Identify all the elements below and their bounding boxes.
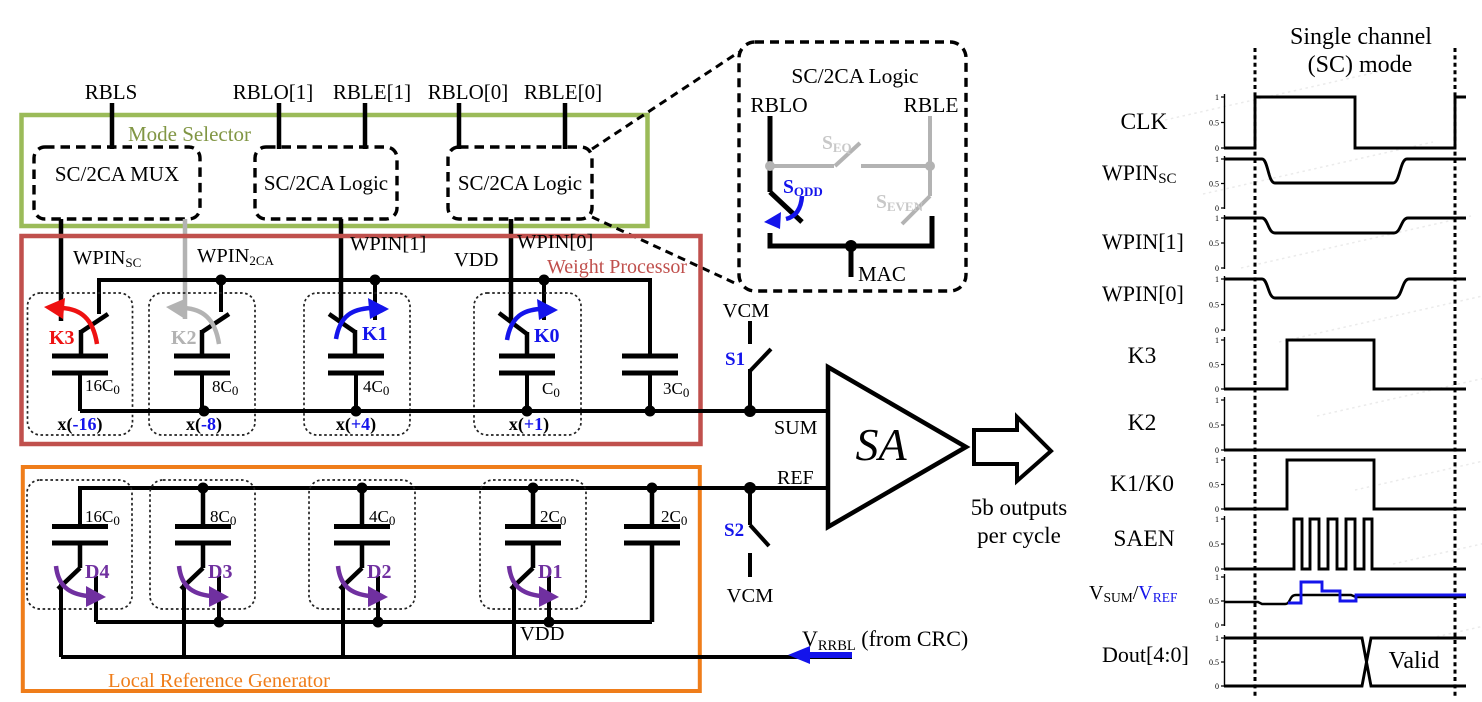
svg-text:0: 0 (1215, 264, 1219, 273)
capacitor 3C0 (weight, fixed) (622, 356, 689, 411)
block U2 SC/2CA Logic (255, 147, 397, 219)
svg-text:D4: D4 (85, 561, 109, 583)
wire K0 VDD stub (542, 280, 546, 320)
svg-text:RBLE[0]: RBLE[0] (524, 80, 602, 104)
switch D2 (340, 568, 378, 657)
svg-text:S1: S1 (725, 349, 745, 370)
wire VRRBL bottom bus (61, 655, 852, 659)
svg-text:K1/K0: K1/K0 (1110, 471, 1174, 497)
label x(-16) (58, 414, 103, 435)
switch D4 purple arrow (56, 566, 106, 607)
waveform SAEN (1224, 519, 1466, 569)
cycle boundary dashed line left (1254, 48, 1257, 697)
junction dot rail-K1 (370, 275, 381, 286)
frame: Local Reference Generator (orange) (23, 467, 700, 691)
label S2 (724, 520, 744, 541)
net label VCM (top) (723, 300, 770, 322)
frame: Weight Processor (dark red) (22, 236, 701, 444)
svg-text:1: 1 (1215, 634, 1219, 643)
switch S_EQ gray blade (835, 143, 860, 166)
svg-text:x(+4): x(+4) (336, 414, 376, 435)
junction dot MAC (845, 240, 857, 252)
axis WPIN1 (1209, 214, 1225, 273)
node RBLO[1] label (233, 80, 314, 104)
label K1 (362, 323, 388, 345)
svg-text:RBLO: RBLO (750, 93, 807, 117)
label WPIN_SC (1102, 160, 1177, 187)
wire VDD top rail (99, 280, 650, 356)
waveform VREF blue (1288, 582, 1466, 603)
svg-text:VRRBL (from CRC): VRRBL (from CRC) (802, 626, 968, 654)
svg-text:0.5: 0.5 (1209, 540, 1219, 549)
junction dots SUM rail (199, 406, 656, 417)
axis CLK (1209, 93, 1225, 153)
svg-text:WPIN2CA: WPIN2CA (197, 245, 275, 268)
svg-text:VDD: VDD (454, 249, 498, 271)
svg-text:0: 0 (1215, 326, 1219, 335)
timing title Single channel (SC) mode (1290, 24, 1432, 78)
wire RBLE[1] (363, 103, 368, 149)
svg-text:MAC: MAC (858, 262, 906, 286)
net label VCM (bottom) (727, 585, 774, 607)
net label WPIN_SC (73, 247, 141, 270)
node RBLS label (85, 80, 138, 104)
svg-text:1: 1 (1215, 515, 1219, 524)
capacitor 16C0 (reference) (52, 507, 120, 568)
svg-text:4C0: 4C0 (369, 507, 395, 528)
svg-text:x(+1): x(+1) (509, 414, 549, 435)
net label SUM (774, 417, 818, 439)
capacitor 2C0 (reference, fixed) (624, 488, 687, 622)
svg-text:REF: REF (777, 467, 814, 489)
svg-text:0.5: 0.5 (1209, 180, 1219, 189)
wire RBLE gray (inset) (928, 116, 932, 196)
wire RBLE[0] (563, 103, 568, 149)
capacitor 4C0 (weight) (328, 356, 389, 411)
svg-text:16C0: 16C0 (85, 507, 120, 528)
switch K2 gray arrow (166, 298, 219, 344)
svg-text:WPIN[1]: WPIN[1] (350, 233, 426, 255)
junction dot rail-K2 (216, 275, 227, 286)
wire WPIN[0] (U3 to K0) (509, 219, 514, 320)
label VRRBL (from CRC) (802, 626, 968, 654)
capacitor 2C0 (reference) (505, 488, 566, 568)
label K1/K0 (1110, 471, 1174, 497)
svg-text:Single channel: Single channel (1290, 24, 1432, 50)
junction dots REF rail (198, 483, 658, 494)
svg-text:1: 1 (1215, 456, 1219, 465)
output arrow (5b outputs) (974, 417, 1051, 481)
waveform K2 (1224, 449, 1466, 452)
label Valid (1389, 648, 1440, 674)
waveform K1/K0 (1224, 460, 1466, 509)
label x(+1) (509, 414, 549, 435)
svg-text:D1: D1 (538, 561, 562, 583)
node RBLO (inset) (750, 93, 807, 117)
label K3 (1128, 343, 1157, 369)
svg-text:WPIN[1]: WPIN[1] (1102, 229, 1184, 254)
svg-text:D2: D2 (367, 561, 391, 583)
waveform WPIN_SC (1224, 159, 1466, 183)
label WPIN[1] (1102, 229, 1184, 254)
switch K2 (gray) (202, 314, 229, 356)
switch K1 blue arrow (336, 298, 389, 339)
svg-text:K2: K2 (1128, 410, 1157, 436)
switch D2 purple arrow (338, 566, 388, 607)
wire equalizer gray right (861, 164, 930, 168)
junction dot SUM node (744, 405, 756, 417)
svg-text:0: 0 (1215, 682, 1219, 691)
node RBLE[0] label (524, 80, 602, 104)
svg-text:1: 1 (1215, 155, 1219, 164)
wire WPIN_2CA gray (MUX to K2) (183, 219, 188, 319)
axis K1K0 (1209, 456, 1225, 514)
switch S_ODD blue arrow (764, 196, 802, 229)
label x(-8) (186, 414, 222, 435)
svg-text:4C0: 4C0 (363, 377, 389, 398)
callout line upper (U3 to inset) (592, 52, 739, 149)
junction dot gray left (765, 161, 775, 171)
capacitor 8C0 (weight) (174, 356, 238, 411)
waveform CLK (1224, 97, 1466, 148)
label Local Reference Generator (108, 670, 330, 692)
svg-text:K3: K3 (1128, 343, 1157, 369)
cell box x(+4) (304, 293, 410, 435)
svg-text:SUM: SUM (774, 417, 818, 439)
svg-text:Dout[4:0]: Dout[4:0] (1102, 642, 1189, 667)
svg-text:x(-16): x(-16) (58, 414, 103, 435)
label D1 (538, 561, 562, 583)
svg-text:Weight Processor: Weight Processor (547, 256, 687, 278)
label K2 (1128, 410, 1157, 436)
svg-text:16C0: 16C0 (85, 376, 120, 397)
junction dots VDD bus (214, 617, 555, 628)
svg-text:0.5: 0.5 (1209, 658, 1219, 667)
svg-text:VSUM/VREF: VSUM/VREF (1089, 582, 1178, 605)
svg-text:1: 1 (1215, 214, 1219, 223)
switch K1 (329, 314, 355, 356)
switch K3 red arrow (44, 298, 97, 344)
wire equalizer gray left (770, 164, 834, 168)
capacitor 4C0 (reference) (334, 488, 395, 568)
svg-text:0.5: 0.5 (1209, 421, 1219, 430)
axis VSUM (1209, 573, 1225, 630)
svg-text:D3: D3 (208, 561, 232, 583)
wire RBLO[1] (277, 103, 282, 149)
waveform WPIN[1] (1224, 218, 1466, 233)
svg-text:K3: K3 (49, 327, 75, 349)
waveform K3 (1224, 340, 1466, 389)
wire WPIN_SC (MUX to K3) (59, 219, 64, 321)
svg-text:1: 1 (1215, 573, 1219, 582)
cell box D2 (309, 480, 415, 609)
svg-text:Mode Selector: Mode Selector (128, 122, 251, 146)
svg-text:C0: C0 (542, 379, 560, 400)
svg-text:0.5: 0.5 (1209, 597, 1219, 606)
wire VRRBL blue arrow (788, 646, 852, 664)
cell box x(-8) (149, 293, 255, 435)
axis SAEN (1209, 515, 1225, 574)
wire WPIN[1] (U2 to K1) (339, 219, 344, 321)
svg-text:RBLE: RBLE (904, 93, 959, 117)
label K2 (171, 327, 197, 349)
switch D3 purple arrow (179, 566, 229, 607)
label 5b outputs per cycle (971, 495, 1068, 548)
net label WPIN_2CA (197, 245, 275, 268)
svg-text:x(-8): x(-8) (186, 414, 222, 435)
callout line lower (U3 to inset) (592, 217, 739, 285)
wire MAC stub (849, 246, 854, 277)
frame: Mode Selector (green) (22, 115, 648, 226)
svg-text:K0: K0 (534, 325, 560, 347)
svg-text:1: 1 (1215, 396, 1219, 405)
wire MAC bottom (inset) (770, 216, 932, 246)
svg-text:0: 0 (1215, 144, 1219, 153)
svg-text:0: 0 (1215, 505, 1219, 514)
svg-text:K1: K1 (362, 323, 388, 345)
junction dot rail-K0 (539, 275, 550, 286)
axis WPINSC (1209, 155, 1225, 213)
net label REF (777, 467, 814, 489)
svg-text:0: 0 (1215, 385, 1219, 394)
switch K0 blue arrow (507, 299, 558, 340)
block U1 SC/2CA MUX (34, 147, 200, 219)
label WPIN[0] (1102, 281, 1184, 306)
wire RBLS (110, 103, 115, 149)
label K3 (49, 327, 75, 349)
svg-text:0.5: 0.5 (1209, 361, 1219, 370)
svg-text:0: 0 (1215, 204, 1219, 213)
svg-text:0.5: 0.5 (1209, 481, 1219, 490)
switch D4 (58, 568, 96, 657)
svg-text:1: 1 (1215, 93, 1219, 102)
svg-text:CLK: CLK (1121, 109, 1168, 135)
label VSUM/VREF (1089, 582, 1178, 605)
label Mode Selector (128, 122, 251, 146)
label K0 (534, 325, 560, 347)
label S_ODD (783, 177, 823, 199)
svg-text:WPINSC: WPINSC (1102, 160, 1177, 187)
node RBLO[0] label (428, 80, 509, 104)
svg-text:WPINSC: WPINSC (73, 247, 141, 270)
svg-text:2C0: 2C0 (540, 507, 566, 528)
op-amp SA comparator (828, 367, 966, 527)
waveform Dout bus (1224, 638, 1466, 686)
inset frame SC/2CA Logic detail (739, 42, 966, 291)
net label VDD (weight processor) (454, 249, 498, 271)
wire RBLO[0] (457, 103, 462, 149)
label D4 (85, 561, 109, 583)
svg-text:WPIN[0]: WPIN[0] (1102, 281, 1184, 306)
label x(+4) (336, 414, 376, 435)
block U3 SC/2CA Logic (448, 147, 592, 219)
waveform WPIN[0] (1224, 279, 1466, 298)
axis WPIN0 (1209, 275, 1225, 335)
svg-text:RBLS: RBLS (85, 80, 138, 104)
svg-text:0: 0 (1215, 446, 1219, 455)
svg-text:RBLO[0]: RBLO[0] (428, 80, 509, 104)
svg-text:SA: SA (855, 419, 907, 470)
label S_EVEN (876, 192, 924, 214)
cell box D1 (480, 480, 586, 609)
label Weight Processor (547, 256, 687, 278)
junction dot gray right (925, 161, 935, 171)
svg-text:0: 0 (1215, 621, 1219, 630)
capacitor 16C0 (weight) (52, 356, 120, 411)
svg-text:VDD: VDD (520, 623, 564, 645)
switch S1 (750, 321, 771, 411)
svg-text:SC/2CA Logic: SC/2CA Logic (264, 171, 388, 195)
svg-text:3C0: 3C0 (663, 379, 689, 400)
svg-text:0.5: 0.5 (1209, 119, 1219, 128)
cycle boundary dashed line right (1454, 48, 1457, 697)
svg-text:Valid: Valid (1389, 648, 1440, 674)
waveform VSUM black (1224, 595, 1466, 604)
axis K3 (1209, 336, 1225, 394)
capacitor 8C0 (reference) (175, 488, 236, 568)
net label VDD (reference) (520, 623, 564, 645)
svg-text:2C0: 2C0 (661, 507, 687, 528)
switch K3 (81, 314, 108, 356)
label CLK (1121, 109, 1168, 135)
axis Dout (1209, 634, 1225, 691)
label S1 (725, 349, 745, 370)
svg-text:8C0: 8C0 (210, 507, 236, 528)
svg-text:RBLE[1]: RBLE[1] (333, 80, 411, 104)
svg-text:SC/2CA Logic: SC/2CA Logic (791, 64, 918, 88)
svg-text:1: 1 (1215, 275, 1219, 284)
svg-text:0.5: 0.5 (1209, 239, 1219, 248)
switch D1 purple arrow (509, 566, 559, 607)
cell box D4 (27, 480, 132, 609)
svg-text:SODD: SODD (783, 177, 823, 199)
wire SUM bottom rail (80, 409, 828, 413)
net label WPIN[1] (350, 233, 426, 255)
svg-text:1: 1 (1215, 336, 1219, 345)
node RBLE (inset) (904, 93, 959, 117)
label D3 (208, 561, 232, 583)
svg-text:(SC) mode: (SC) mode (1308, 52, 1413, 78)
junction dot REF node (744, 482, 756, 494)
wire RBLO (inset) (768, 116, 773, 192)
cell box x(+1) (474, 293, 581, 435)
svg-text:Local Reference Generator: Local Reference Generator (108, 670, 330, 692)
switch S2 (750, 488, 769, 577)
svg-text:VCM: VCM (723, 300, 770, 322)
svg-text:S2: S2 (724, 520, 744, 541)
wire K1 VDD stub (373, 280, 377, 320)
switch S_EVEN gray blade (902, 196, 930, 224)
svg-text:WPIN[0]: WPIN[0] (517, 231, 593, 253)
label SAEN (1113, 526, 1174, 552)
capacitor C0 (weight) (499, 356, 560, 411)
cell box x(-16) (28, 293, 133, 435)
switch K0 (499, 313, 527, 356)
inset title SC/2CA Logic (791, 64, 918, 88)
label Dout[4:0] (1102, 642, 1189, 667)
switch S_ODD blade (770, 192, 802, 222)
svg-text:5b outputs: 5b outputs (971, 495, 1068, 520)
svg-text:K2: K2 (171, 327, 197, 349)
wire K2 VDD stub (219, 280, 223, 312)
wire VDD bus (reference) (96, 620, 652, 624)
wire REF top rail (80, 488, 828, 526)
label D2 (367, 561, 391, 583)
svg-text:SEQ: SEQ (822, 133, 852, 155)
svg-text:per cycle: per cycle (977, 523, 1061, 548)
node label MAC (858, 262, 906, 286)
axis K2 (1209, 396, 1225, 455)
node RBLE[1] label (333, 80, 411, 104)
svg-text:0.5: 0.5 (1209, 301, 1219, 310)
net label WPIN[0] (517, 231, 593, 253)
svg-text:RBLO[1]: RBLO[1] (233, 80, 314, 104)
svg-text:SAEN: SAEN (1113, 526, 1174, 552)
svg-text:SEVEN: SEVEN (876, 192, 924, 214)
svg-text:SC/2CA Logic: SC/2CA Logic (458, 171, 582, 195)
svg-text:SC/2CA MUX: SC/2CA MUX (55, 162, 179, 186)
decorative skipped (1165, 68, 1482, 638)
switch D1 (511, 568, 549, 657)
svg-text:8C0: 8C0 (212, 377, 238, 398)
svg-text:VCM: VCM (727, 585, 774, 607)
cell box D3 (150, 480, 255, 609)
label S_EQ (822, 133, 852, 155)
switch D3 (181, 568, 219, 657)
